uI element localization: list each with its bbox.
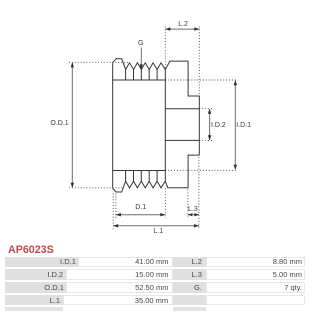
label O.D.1 — [50, 120, 68, 127]
rim base lines — [113, 80, 166, 171]
dimension lines — [72, 29, 235, 226]
L.2 right ext — [198, 27, 200, 96]
L.1 left ext — [112, 194, 114, 230]
I.D.1 arrows — [234, 80, 237, 85]
L.3 arrows — [188, 213, 193, 216]
I.D.1 dim line — [234, 81, 236, 170]
label I.D.1 — [236, 122, 251, 129]
I.D.1 top ext — [165, 79, 237, 81]
arrowheads — [71, 27, 237, 227]
spec table row 2 — [5, 269, 66, 280]
groove slots bottom — [126, 171, 158, 182]
I.D.1 bottom ext — [165, 169, 237, 171]
L.3 dim line — [188, 214, 199, 216]
L.1 arrows — [113, 224, 118, 227]
pulley technical drawing — [0, 0, 307, 245]
label I.D.2 — [211, 122, 226, 129]
D.1 dim line — [116, 214, 165, 216]
L.2 arrows — [165, 27, 170, 30]
L.3 / L.1 right ext — [198, 157, 200, 229]
label D.1 — [135, 204, 146, 211]
L.1 dim line — [113, 225, 199, 227]
dotted extension lines — [69, 27, 237, 230]
spec table row 1 — [5, 257, 79, 268]
O.D.1 bottom ext — [69, 187, 124, 189]
label L.2 — [178, 21, 188, 28]
G arrow — [140, 64, 143, 69]
part number — [8, 244, 54, 256]
label G — [138, 40, 143, 47]
O.D.1 top ext — [69, 61, 130, 63]
label L.1 — [153, 228, 163, 235]
I.D.2 bottom ext — [199, 139, 213, 141]
I.D.2 dim line — [209, 109, 211, 140]
spec table row 3 — [5, 282, 67, 293]
D.1 right ext — [164, 189, 166, 219]
I.D.2 top ext — [199, 108, 213, 110]
G leader line — [140, 48, 142, 66]
O.D.1 dim line — [71, 63, 73, 187]
groove slots top — [126, 70, 158, 81]
bore lines I.D.2 — [165, 109, 199, 141]
L.2 left ext — [164, 27, 166, 70]
L.3 left ext — [187, 190, 189, 218]
L.2 dim line — [165, 28, 199, 30]
pulley outline — [113, 59, 200, 192]
I.D.2 arrows — [208, 109, 211, 114]
D.1 arrows — [116, 213, 121, 216]
label L.3 — [188, 206, 198, 213]
spec table row 5 (partially visible) — [5, 307, 63, 311]
spec table row 4 — [5, 295, 63, 306]
rim right face — [164, 70, 166, 182]
D.1 left ext — [115, 194, 117, 219]
O.D.1 arrows — [71, 62, 74, 67]
